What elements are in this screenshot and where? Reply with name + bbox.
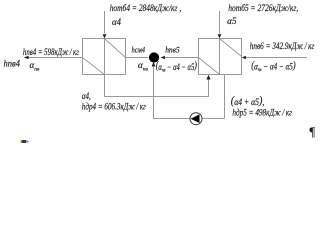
condensate wire right segment	[246, 57, 307, 59]
arrowhead up into box 2 bottom	[206, 75, 210, 80]
arrowhead into node	[161, 56, 165, 59]
steam extraction wire 5 (vertical into box 2)	[219, 11, 221, 34]
svg-text:hпв6 = 342.9кДж / кг: hпв6 = 342.9кДж / кг	[250, 42, 315, 52]
svg-text:α4: α4	[112, 18, 121, 28]
heater box 2 (ПНД5)	[199, 39, 242, 75]
arrowhead up into node	[152, 62, 156, 67]
arrowhead left output	[24, 56, 29, 59]
pump discharge riser wire	[153, 66, 155, 119]
svg-text:hотб5 = 2726кДж/кг,: hотб5 = 2726кДж/кг,	[228, 3, 298, 14]
svg-text:hпв5: hпв5	[165, 46, 180, 55]
heater box 1 internal vertical steam path	[104, 39, 106, 75]
arrowhead into box 2	[218, 34, 222, 38]
heater box 1 diagonal upper	[105, 39, 126, 58]
svg-text:hпв4: hпв4	[4, 60, 21, 70]
pump suction wire	[154, 118, 225, 120]
svg-text:α5: α5	[227, 16, 237, 26]
heater box 1 (ПНД4)	[83, 39, 126, 75]
mixing node (filled circle)	[149, 52, 159, 62]
condensate wire left segment out of box1	[28, 57, 83, 59]
heater box 2 diagonal upper	[220, 39, 242, 57]
svg-text:hотб4 = 2848кДж/кг ,: hотб4 = 2848кДж/кг ,	[110, 3, 182, 14]
condensate wire between node and box1	[126, 57, 149, 59]
condensate wire between box2 and node	[165, 57, 199, 59]
steam extraction wire 4 (vertical into box 1)	[104, 11, 106, 34]
heater box 1 diagonal lower	[83, 58, 105, 75]
drain wire from box2 down	[224, 75, 226, 119]
svg-text:hдр4 = 606.3кДж / кг: hдр4 = 606.3кДж / кг	[82, 101, 146, 112]
svg-text:hдр5 = 498кДж / кг: hдр5 = 498кДж / кг	[232, 107, 292, 118]
partial glyph at bottom edge	[22, 140, 27, 143]
svg-text:hсм4: hсм4	[132, 46, 146, 55]
svg-text:hпв4 = 598кДж / кг: hпв4 = 598кДж / кг	[23, 48, 79, 58]
heater box 2 diagonal lower	[199, 58, 220, 75]
svg-text:¶: ¶	[309, 125, 316, 139]
arrowhead into box 2 right side	[242, 56, 246, 59]
heater box 2 internal vertical steam path	[219, 39, 221, 75]
svg-text:α4,: α4,	[82, 91, 91, 101]
arrowhead into box 1	[103, 34, 107, 38]
pump (circle with filled triangle)	[190, 113, 202, 125]
drain wire from box1 (alpha4)	[105, 75, 209, 97]
